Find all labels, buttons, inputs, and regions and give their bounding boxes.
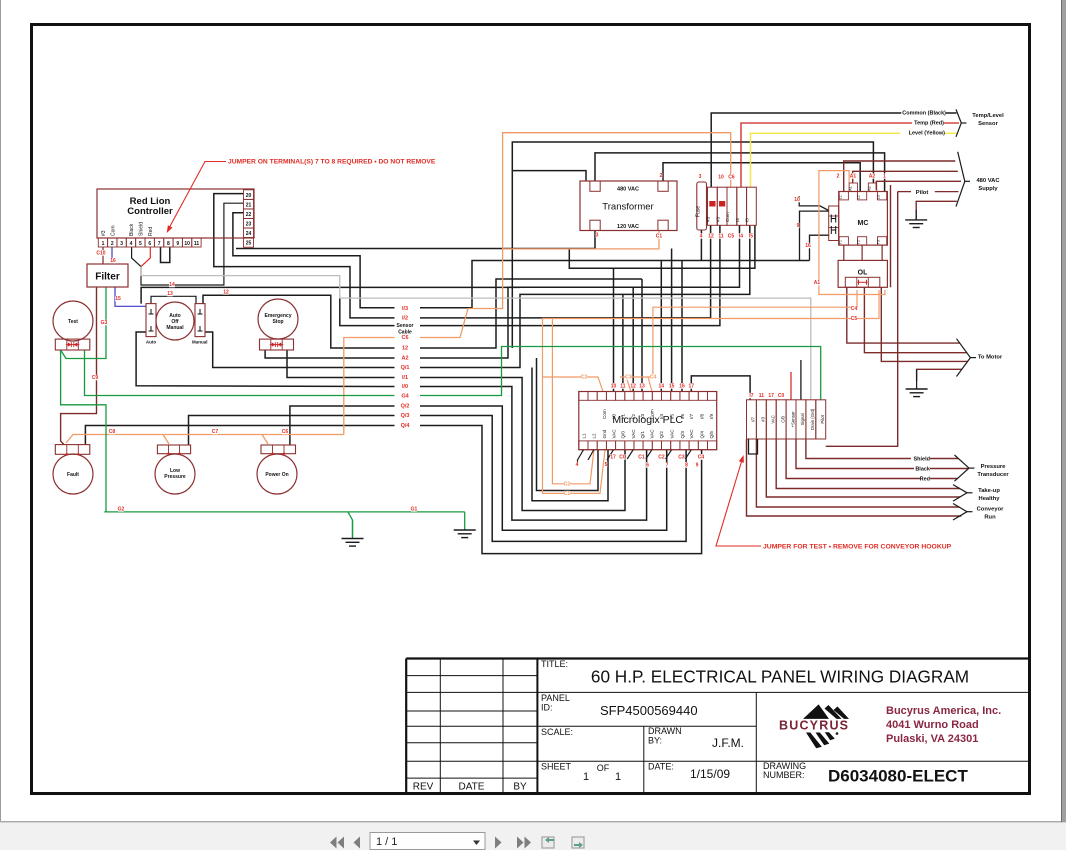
svg-text:C9: C9: [92, 375, 99, 381]
svg-text:VAC: VAC: [689, 429, 694, 439]
svg-text:T3: T3: [877, 240, 881, 244]
svg-text:C4: C4: [851, 306, 858, 312]
svg-text:C1: C1: [638, 455, 645, 461]
svg-text:Fuse: Fuse: [696, 206, 702, 217]
svg-text:Red: Red: [148, 227, 154, 236]
svg-text:I5: I5: [749, 234, 753, 240]
svg-text:12: 12: [630, 384, 636, 390]
svg-text:1/15/09: 1/15/09: [690, 767, 730, 781]
svg-text:G4: G4: [401, 394, 409, 400]
svg-text:15: 15: [115, 296, 121, 302]
svg-text:L1: L1: [581, 433, 586, 439]
svg-text:SFP4500569440: SFP4500569440: [600, 703, 698, 718]
svg-text:Q/2: Q/2: [659, 431, 664, 439]
svg-text:VAC: VAC: [611, 429, 616, 439]
svg-text:C6: C6: [282, 429, 289, 435]
svg-text:Common (Black): Common (Black): [902, 111, 946, 117]
svg-text:Sensor: Sensor: [978, 121, 998, 127]
svg-text:10: 10: [611, 384, 617, 390]
svg-text:4: 4: [700, 234, 703, 240]
svg-text:22: 22: [246, 212, 252, 218]
svg-text:Q/4: Q/4: [401, 423, 411, 429]
svg-text:6: 6: [646, 463, 649, 469]
svg-text:VAC: VAC: [631, 429, 636, 439]
svg-text:Gnd: Gnd: [602, 429, 607, 438]
svg-text:1 / 1: 1 / 1: [376, 836, 397, 848]
svg-text:12: 12: [708, 234, 714, 240]
svg-text:D6034080-ELECT: D6034080-ELECT: [828, 767, 968, 786]
svg-text:I/9: I/9: [709, 413, 714, 419]
svg-text:A2: A2: [869, 174, 876, 180]
svg-text:16: 16: [110, 258, 116, 264]
svg-text:Transformer: Transformer: [602, 202, 653, 213]
svg-text:4041 Wurno Road: 4041 Wurno Road: [886, 719, 979, 731]
svg-text:C2: C2: [581, 375, 588, 381]
svg-text:Shield: Shield: [138, 222, 144, 236]
svg-text:Q/5: Q/5: [709, 431, 714, 439]
svg-text:14: 14: [659, 384, 665, 390]
svg-text:I/1: I/1: [402, 375, 408, 381]
svg-text:To Motor: To Motor: [978, 355, 1003, 361]
svg-text:SHEET: SHEET: [541, 762, 572, 772]
svg-text:Pulaski, VA 24301: Pulaski, VA 24301: [886, 733, 978, 745]
svg-text:Pressure: Pressure: [981, 464, 1007, 470]
svg-text:11: 11: [759, 393, 765, 399]
svg-text:A2: A2: [868, 186, 872, 190]
svg-text:5: 5: [605, 462, 608, 468]
svg-text:A1: A1: [814, 280, 821, 286]
svg-text:L1: L1: [838, 195, 842, 199]
svg-text:Auto: Auto: [146, 340, 156, 345]
svg-text:21: 21: [246, 202, 252, 208]
svg-text:16: 16: [805, 243, 811, 249]
svg-text:I5: I5: [745, 218, 750, 222]
svg-text:C7: C7: [212, 429, 219, 435]
svg-text:2: 2: [111, 241, 114, 247]
svg-text:Filter: Filter: [95, 272, 120, 283]
svg-text:VAC: VAC: [650, 429, 655, 439]
svg-text:VAC: VAC: [771, 415, 776, 424]
svg-text:10: 10: [718, 175, 724, 181]
svg-text:I4: I4: [735, 218, 740, 222]
svg-text:20: 20: [246, 193, 252, 199]
svg-text:480 VAC: 480 VAC: [976, 178, 1000, 184]
svg-text:Pilot: Pilot: [916, 190, 929, 196]
svg-text:BUCYRUS: BUCYRUS: [779, 719, 849, 733]
svg-text:2: 2: [660, 173, 663, 179]
svg-text:C4: C4: [650, 375, 657, 381]
svg-text:TITLE:: TITLE:: [541, 659, 568, 669]
svg-text:Q/2: Q/2: [401, 404, 410, 410]
svg-text:Supply: Supply: [978, 186, 998, 192]
svg-text:SCALE:: SCALE:: [541, 727, 573, 737]
svg-text:I/7: I/7: [689, 413, 694, 419]
svg-text:#3: #3: [101, 230, 107, 236]
svg-text:#3: #3: [761, 416, 766, 421]
svg-text:G2: G2: [118, 507, 125, 513]
svg-text:C3: C3: [625, 375, 632, 381]
svg-text:L2: L2: [857, 195, 861, 199]
svg-text:Red: Red: [920, 477, 930, 483]
svg-text:PANEL: PANEL: [541, 693, 570, 703]
svg-text:Bucyrus America, Inc.: Bucyrus America, Inc.: [886, 705, 1001, 717]
svg-text:9: 9: [797, 223, 800, 229]
svg-text:Black: Black: [129, 223, 135, 236]
svg-text:8: 8: [685, 463, 688, 469]
svg-text:10: 10: [184, 241, 190, 247]
svg-text:Q/0: Q/0: [621, 431, 626, 439]
svg-text:12: 12: [402, 346, 408, 352]
svg-text:JUMPER FOR TEST • REMOVE FOR C: JUMPER FOR TEST • REMOVE FOR CONVEYOR HO…: [763, 544, 952, 551]
svg-text:Com: Com: [602, 409, 607, 419]
svg-text:6: 6: [148, 241, 151, 247]
svg-text:Temp (Red): Temp (Red): [914, 121, 944, 127]
svg-text:12: 12: [223, 290, 229, 296]
svg-text:60 H.P. ELECTRICAL PANEL WIRIN: 60 H.P. ELECTRICAL PANEL WIRING DIAGRAM: [591, 667, 969, 687]
svg-text:Fault: Fault: [67, 472, 79, 478]
svg-text:Q/3: Q/3: [401, 413, 410, 419]
svg-text:14: 14: [169, 282, 175, 288]
svg-text:17: 17: [689, 384, 695, 390]
svg-text:OF: OF: [597, 763, 610, 773]
svg-text:1: 1: [883, 174, 886, 180]
svg-text:Power On: Power On: [265, 472, 288, 478]
svg-text:Micrologix PLC: Micrologix PLC: [612, 414, 683, 426]
svg-text:A1: A1: [850, 174, 857, 180]
svg-text:9: 9: [696, 463, 699, 469]
svg-text:Manual: Manual: [166, 325, 184, 331]
svg-text:VAC: VAC: [669, 429, 674, 439]
svg-text:25: 25: [246, 241, 252, 247]
svg-text:5: 5: [139, 241, 142, 247]
svg-text:G1: G1: [411, 507, 418, 513]
svg-text:13: 13: [639, 384, 645, 390]
svg-text:C/0: C/0: [780, 415, 785, 422]
svg-text:120 VAC: 120 VAC: [617, 224, 639, 230]
svg-text:Pilot: Pilot: [820, 414, 825, 423]
svg-text:DATE: DATE: [459, 782, 485, 793]
svg-text:C10: C10: [96, 251, 105, 257]
svg-text:BY:: BY:: [648, 736, 662, 746]
svg-text:Transducer: Transducer: [977, 472, 1009, 478]
svg-text:Stop: Stop: [272, 319, 283, 325]
svg-text:J.F.M.: J.F.M.: [712, 736, 744, 750]
svg-text:1: 1: [583, 771, 589, 783]
svg-text:15: 15: [669, 384, 675, 390]
svg-text:Healthy: Healthy: [979, 496, 1001, 502]
svg-text:MC: MC: [858, 220, 869, 227]
svg-text:BY: BY: [513, 782, 527, 793]
svg-text:ID:: ID:: [541, 703, 553, 713]
svg-text:Drain (Grd): Drain (Grd): [810, 408, 815, 430]
svg-text:Q/3: Q/3: [680, 431, 685, 439]
svg-text:2: 2: [837, 174, 840, 180]
svg-text:C2: C2: [564, 482, 571, 488]
svg-text:DRAWN: DRAWN: [648, 726, 682, 736]
svg-text:Run: Run: [984, 515, 996, 521]
svg-text:#3: #3: [716, 216, 721, 222]
svg-text:17: 17: [768, 393, 774, 399]
svg-text:3: 3: [120, 241, 123, 247]
svg-text:24: 24: [246, 231, 252, 237]
svg-text:I7: I7: [749, 393, 753, 399]
svg-text:Black: Black: [915, 467, 931, 473]
svg-text:1: 1: [102, 241, 105, 247]
svg-text:C0: C0: [778, 393, 785, 399]
svg-text:C6: C6: [728, 175, 735, 181]
svg-text:I/7: I/7: [751, 416, 756, 421]
svg-text:4: 4: [130, 241, 133, 247]
svg-text:C8: C8: [109, 429, 116, 435]
svg-text:7: 7: [158, 241, 161, 247]
svg-text:DATE:: DATE:: [648, 762, 674, 772]
svg-text:+Sensor: +Sensor: [790, 411, 795, 428]
svg-text:C1: C1: [564, 491, 571, 497]
svg-text:I/0: I/0: [402, 384, 408, 390]
svg-text:I4: I4: [739, 234, 743, 240]
svg-text:L2: L2: [592, 433, 597, 439]
svg-text:Test: Test: [68, 319, 78, 325]
svg-text:11: 11: [620, 384, 626, 390]
svg-text:13: 13: [167, 291, 173, 297]
svg-text:1: 1: [615, 771, 621, 783]
svg-text:23: 23: [246, 222, 252, 228]
svg-text:Pressure: Pressure: [164, 474, 186, 480]
svg-text:3: 3: [596, 233, 599, 239]
svg-text:C5: C5: [851, 316, 858, 322]
svg-text:A2: A2: [401, 356, 408, 362]
svg-text:3: 3: [699, 174, 702, 180]
svg-text:Cable: Cable: [398, 330, 412, 336]
svg-text:#3: #3: [706, 216, 711, 222]
svg-text:10: 10: [794, 197, 800, 203]
svg-text:C5: C5: [728, 234, 735, 240]
svg-text:Take-up: Take-up: [978, 488, 1000, 494]
svg-text:C6: C6: [401, 335, 408, 341]
svg-text:Level (Yellow): Level (Yellow): [909, 131, 946, 137]
svg-text:17: 17: [610, 455, 616, 461]
svg-text:Shield: Shield: [913, 457, 930, 463]
svg-text:NUMBER:: NUMBER:: [763, 770, 805, 780]
svg-text:7: 7: [666, 463, 669, 469]
svg-text:I/8: I/8: [699, 413, 704, 419]
svg-text:C2: C2: [658, 455, 665, 461]
svg-text:C0: C0: [619, 455, 626, 461]
svg-text:Conveyor: Conveyor: [977, 507, 1004, 513]
svg-text:OL: OL: [858, 270, 868, 277]
svg-text:Controller: Controller: [127, 206, 173, 217]
svg-text:C4: C4: [698, 455, 705, 461]
svg-text:REV: REV: [413, 782, 434, 793]
svg-text:JUMPER ON TERMINAL(S) 7 TO 8 R: JUMPER ON TERMINAL(S) 7 TO 8 REQUIRED • …: [228, 159, 436, 166]
svg-text:16: 16: [679, 384, 685, 390]
svg-text:C3: C3: [678, 455, 685, 461]
svg-text:I/3: I/3: [402, 306, 408, 312]
svg-text:11: 11: [194, 241, 200, 247]
svg-text:L3: L3: [877, 195, 881, 199]
svg-text:Temp/Level: Temp/Level: [972, 113, 1004, 119]
svg-text:G3: G3: [101, 320, 108, 326]
svg-text:Q/4: Q/4: [699, 431, 704, 439]
svg-text:Com: Com: [725, 212, 730, 222]
svg-text:C1: C1: [656, 234, 663, 240]
svg-text:4: 4: [576, 462, 579, 468]
svg-text:480 VAC: 480 VAC: [617, 187, 639, 193]
svg-text:Q/1: Q/1: [640, 431, 645, 439]
svg-text:Sensor: Sensor: [397, 323, 414, 329]
svg-text:11: 11: [718, 234, 724, 240]
svg-text:Com: Com: [110, 225, 116, 236]
svg-text:Signal: Signal: [800, 413, 805, 425]
svg-text:Manual: Manual: [192, 340, 208, 345]
svg-text:I/2: I/2: [402, 316, 408, 322]
svg-text:A1: A1: [848, 186, 852, 190]
svg-text:9: 9: [176, 241, 179, 247]
svg-text:8: 8: [167, 241, 170, 247]
svg-text:Q/1: Q/1: [401, 365, 410, 371]
svg-text:T2: T2: [857, 240, 861, 244]
